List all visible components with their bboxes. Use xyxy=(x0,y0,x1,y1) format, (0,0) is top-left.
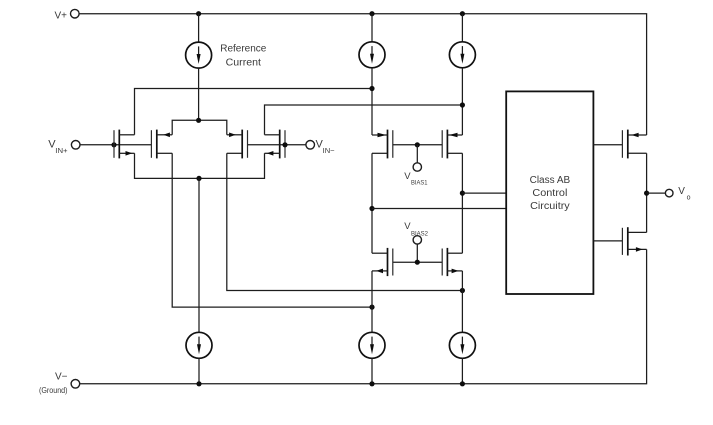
node VBIAS1 terminal xyxy=(413,145,421,171)
current source I1 (upper left) xyxy=(359,14,385,135)
node V- (Ground) terminal xyxy=(39,372,80,396)
node junction dot bottom rail left xyxy=(196,381,201,386)
svg-text:Reference: Reference xyxy=(220,43,267,54)
node junction dot at (462,290) xyxy=(460,288,465,293)
block U1 Class AB Control Circuitry xyxy=(506,91,593,294)
transistor Q2 (input pair outer right) xyxy=(265,130,286,159)
transistor Q7 (lower cascode left, VBIAS2) xyxy=(372,248,393,276)
wire V_IN+ to gates of Q1 and Q3 xyxy=(80,144,151,146)
wire Q3 drain down to lower left cascode node xyxy=(172,153,372,307)
current source I3 (lower tail of input pair) xyxy=(186,178,212,383)
transistor Q1 (input pair outer left) xyxy=(114,130,135,159)
wire V_IN- to gates of Q4 and Q2 xyxy=(248,144,306,146)
node VBIAS2 terminal xyxy=(413,236,421,263)
label Reference Current xyxy=(220,43,267,68)
current source IREF (Reference Current) xyxy=(186,14,212,121)
node junction dot at (372,307) xyxy=(369,305,374,310)
transistor Q4 (input pair inner right) xyxy=(227,130,248,159)
svg-text:Class AB: Class AB xyxy=(530,175,571,186)
svg-text:Control: Control xyxy=(532,188,567,199)
transistor Q8 (lower cascode right, VBIAS2) xyxy=(442,248,462,276)
current source I5 (lower right) xyxy=(449,332,475,384)
label V_BIAS2 xyxy=(404,221,428,237)
wire tail bridge of Q1/Q2 to lower current source xyxy=(135,153,265,178)
node junction dot top rail at reference current xyxy=(196,11,201,16)
node junction dot bottom rail right xyxy=(460,381,465,386)
wire VBIAS2 gate rail xyxy=(393,261,442,263)
node junction dot left cascode mid xyxy=(369,206,374,211)
node junction dot VBIAS1 xyxy=(415,142,420,147)
wire Q2 drain to upper right current source node xyxy=(265,105,463,135)
svg-text:Circuitry: Circuitry xyxy=(530,201,570,212)
wire Q4 drain down to lower right cascode node xyxy=(227,153,463,290)
wire tail bridge of Q3/Q4 to reference current xyxy=(172,120,227,135)
node junction dot Q1 gate xyxy=(111,142,116,147)
svg-text:IN−: IN− xyxy=(323,146,336,155)
wire box to output NMOS gate xyxy=(593,240,622,242)
wire Q7 source down through lower current source xyxy=(371,271,373,332)
wire top supply rail xyxy=(79,14,647,135)
wire left mid vertical Q5 drain to Q7 drain xyxy=(371,153,373,253)
label V_BIAS1 xyxy=(404,171,428,187)
svg-text:(Ground): (Ground) xyxy=(39,386,68,395)
node junction dot VBIAS2 xyxy=(415,260,420,265)
transistor Q10 (output NMOS) xyxy=(622,227,646,255)
node V_IN- (input terminal) xyxy=(306,138,335,154)
node junction dot tail of Q1/Q2 xyxy=(196,176,201,181)
node junction dot right cascode mid xyxy=(460,191,465,196)
wire bottom supply rail xyxy=(80,249,647,383)
node junction dot tail of Q3/Q4 xyxy=(196,118,201,123)
node V_IN+ (input terminal) xyxy=(48,138,80,154)
transistor Q6 (upper cascode right, VBIAS1) xyxy=(442,130,462,159)
wire right cascode node to Class AB box xyxy=(462,192,507,194)
wire output PMOS drain to output node xyxy=(646,153,648,232)
wire Q1 drain to upper left current source node xyxy=(135,89,373,135)
node junction dot wire2 at x462 xyxy=(460,102,465,107)
svg-text:V−: V− xyxy=(55,372,68,383)
svg-text:V: V xyxy=(678,186,685,197)
transistor Q3 (input pair inner left) xyxy=(151,130,172,159)
node V+ (positive supply terminal) xyxy=(54,9,79,21)
node V_o output terminal xyxy=(647,186,691,201)
node junction dot bottom rail middle xyxy=(369,381,374,386)
wire Q8 source down through lower current source xyxy=(461,271,463,332)
svg-text:V+: V+ xyxy=(54,10,67,21)
transistor Q9 (output PMOS) xyxy=(622,130,646,159)
wire right mid vertical Q6 drain to Q8 drain xyxy=(461,153,463,253)
svg-text:BIAS1: BIAS1 xyxy=(411,180,428,187)
wire box to output PMOS gate xyxy=(593,144,622,146)
node junction dot output xyxy=(644,191,649,196)
wire left cascode node to Class AB box xyxy=(372,208,507,210)
svg-text:IN+: IN+ xyxy=(55,146,68,155)
svg-text:o: o xyxy=(687,194,691,201)
node junction dot wire1 at x372 xyxy=(369,86,374,91)
current source I2 (upper right) xyxy=(449,14,475,135)
node junction dot top rail at left current source xyxy=(369,11,374,16)
current source I4 (lower left) xyxy=(359,332,385,384)
wire VBIAS1 gate rail xyxy=(393,144,442,146)
transistor Q5 (upper cascode left, VBIAS1) xyxy=(372,130,393,159)
node junction dot top rail at right current source xyxy=(460,11,465,16)
node junction dot Q2 gate xyxy=(282,142,287,147)
svg-text:Current: Current xyxy=(226,57,262,68)
